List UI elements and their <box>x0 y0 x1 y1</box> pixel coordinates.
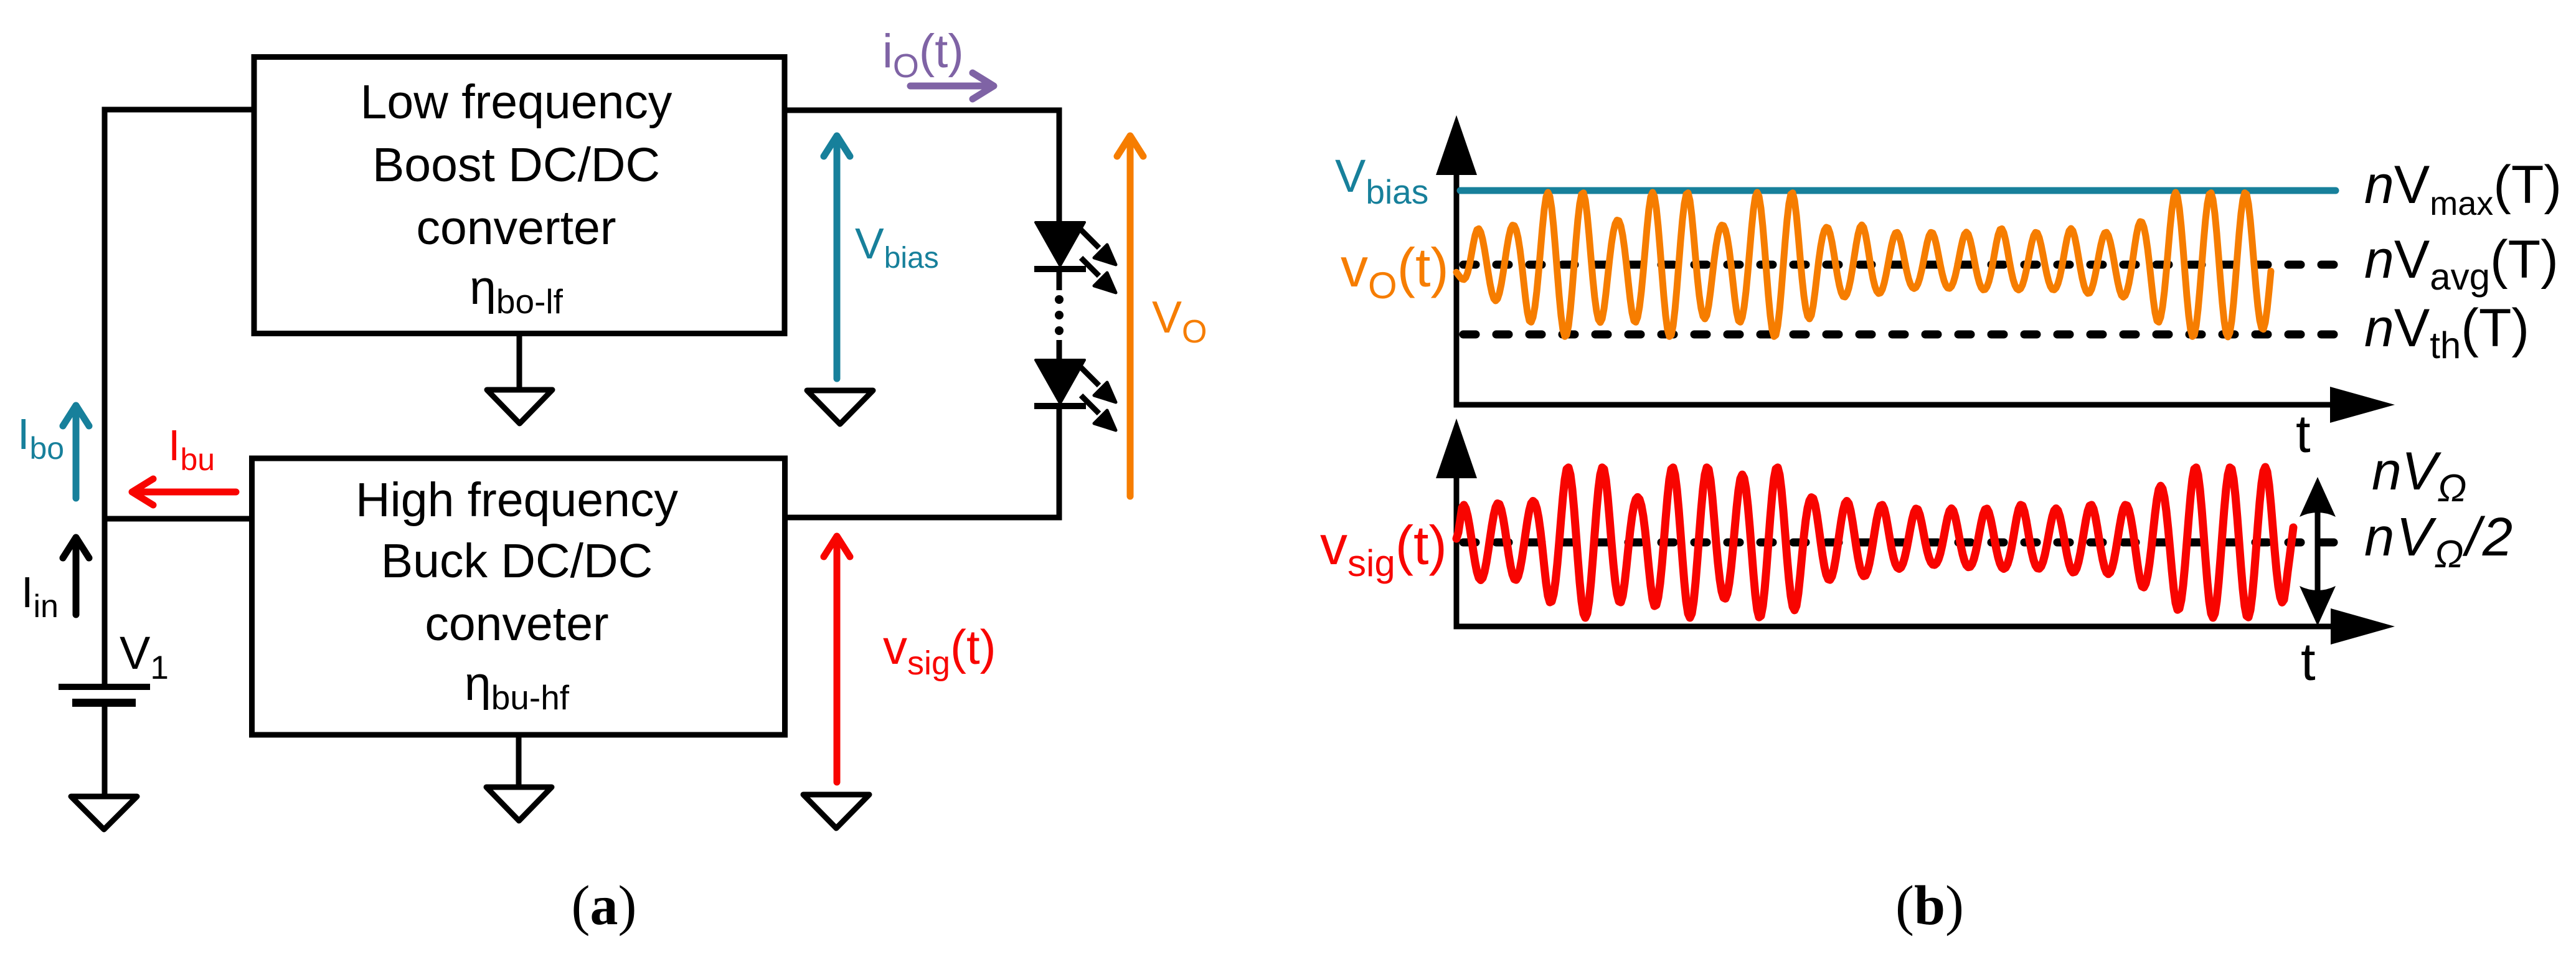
wire: down to LED anode <box>1057 108 1062 226</box>
arrow Iin : source current (black) <box>63 537 89 615</box>
svg-text:Vbias: Vbias <box>1335 150 1428 211</box>
svg-text:V1: V1 <box>120 627 169 686</box>
svg-text:Vbias: Vbias <box>855 219 939 275</box>
ground : below Vbias arrow <box>807 390 873 424</box>
LED D1 : light emission arrow 1 <box>1081 230 1116 265</box>
wire: top feed from bus to boost converter <box>105 107 254 113</box>
axis : bottom plot x-axis <box>1454 624 2334 630</box>
arrow Vbias : bias voltage (teal) <box>824 136 850 379</box>
svg-text:Low frequency: Low frequency <box>361 75 672 129</box>
svg-text:Boost DC/DC: Boost DC/DC <box>372 138 660 192</box>
LED D1 : cathode bar <box>1034 266 1086 272</box>
axis : top plot x-axis <box>1454 402 2334 408</box>
svg-text:nVth(T): nVth(T) <box>2364 298 2529 366</box>
wire: boost output top <box>785 108 1059 113</box>
svg-text:nVΩ/2: nVΩ/2 <box>2364 507 2514 576</box>
svg-text:Ibo: Ibo <box>17 410 64 466</box>
svg-text:t: t <box>2301 633 2316 692</box>
ground : below battery V1 <box>71 796 137 829</box>
waveform vO(t) (orange) <box>1456 192 2271 337</box>
svg-text:Buck DC/DC: Buck DC/DC <box>381 534 653 588</box>
arrow vsig : signal voltage (red) <box>824 536 850 782</box>
LED D1 : triangle <box>1036 222 1085 266</box>
svg-text:nVmax(T): nVmax(T) <box>2364 155 2562 222</box>
battery V1 : long positive plate <box>59 684 150 690</box>
svg-text:Ibu: Ibu <box>168 421 215 477</box>
LED D2 : cathode bar <box>1034 403 1086 409</box>
svg-text:vsig(t): vsig(t) <box>1320 514 1447 584</box>
arrow Ibu : buck input current (red) <box>132 479 236 505</box>
LED D2 : light emission arrow 2 <box>1081 395 1116 430</box>
wire: boost converter ground stub <box>517 334 522 390</box>
arrow Ibo : boost input current (teal) <box>63 405 89 498</box>
svg-text:(b): (b) <box>1895 875 1964 937</box>
line : nVavg(T) dashed level <box>1463 261 2334 269</box>
svg-text:t: t <box>2296 405 2311 464</box>
wire: stub to LED D2 <box>1057 340 1062 362</box>
svg-text:converter: converter <box>417 201 616 255</box>
node : LED string continuation dots <box>1055 295 1064 335</box>
svg-text:iO(t): iO(t) <box>882 25 964 85</box>
svg-text:vO(t): vO(t) <box>1341 237 1449 306</box>
axis : top plot y-axis <box>1454 173 1460 405</box>
arrow iO(t) : output current direction (purple) <box>910 73 994 99</box>
line : nVohm/2 dashed level <box>1463 539 2335 547</box>
svg-text:(a): (a) <box>572 875 637 937</box>
wire: LED cathode down to buck output <box>1057 406 1062 520</box>
wire: buck converter ground stub <box>516 735 522 788</box>
LED D2 : triangle <box>1036 360 1085 404</box>
arrow VO : LED string voltage (orange) <box>1117 136 1143 496</box>
line : Vbias level (teal) <box>1460 187 2336 194</box>
waveform vsig(t) (red) <box>1456 467 2293 618</box>
axis : bottom plot y-axis <box>1454 477 1460 626</box>
line : nVth(T) dashed level <box>1463 331 2334 339</box>
svg-text:High frequency: High frequency <box>356 473 678 527</box>
ground : below buck converter <box>486 787 552 821</box>
arrow : nVohm range double arrow <box>2315 504 2321 601</box>
ground : below vsig arrow <box>803 795 869 828</box>
wire: buck output bottom <box>785 515 1062 521</box>
svg-text:nVΩ: nVΩ <box>2372 442 2466 510</box>
svg-text:vsig(t): vsig(t) <box>883 620 996 682</box>
ground : below boost converter <box>487 390 552 423</box>
svg-text:VO: VO <box>1152 293 1207 350</box>
converter U1 : Low frequency Boost DC/DC <box>254 57 785 334</box>
wire: junction bus to buck converter input <box>105 516 253 522</box>
converter U2 : High frequency Buck DC/DC <box>252 458 785 735</box>
svg-text:Iin: Iin <box>21 568 59 625</box>
wire: left vertical bus <box>102 107 108 687</box>
svg-text:conveter: conveter <box>425 597 608 651</box>
svg-text:nVavg(T): nVavg(T) <box>2364 230 2559 298</box>
wire: battery to ground <box>102 706 108 797</box>
wire: LED D1 cathode stub <box>1057 269 1062 290</box>
battery V1 : short negative plate <box>72 699 136 707</box>
LED D1 : light emission arrow 2 <box>1081 258 1116 293</box>
LED D2 : light emission arrow 1 <box>1081 367 1116 402</box>
